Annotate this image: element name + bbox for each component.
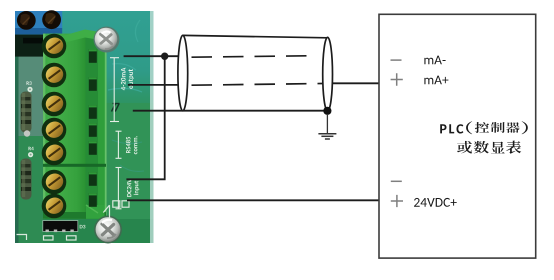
blue terminal block J2 xyxy=(15,10,62,34)
terminal plus 24VDC+ xyxy=(391,195,403,207)
wire W2 mA+ from terminal into cable xyxy=(128,84,187,86)
pcb ground mark xyxy=(112,104,120,112)
label 24VDC+ xyxy=(414,198,457,207)
silkscreen bracket group2 xyxy=(116,131,122,158)
junction node A xyxy=(161,53,168,60)
terminal minus mA- xyxy=(391,59,402,61)
PLC title line2 xyxy=(457,141,521,154)
green terminal block J1 xyxy=(43,30,107,219)
wire W1 mA- from 4-20mA output terminal xyxy=(124,55,187,57)
wire W5 mA+ cable to PLC xyxy=(332,82,379,84)
wire entry slots xyxy=(89,49,97,207)
relay shadow area xyxy=(15,35,43,57)
silkscreen marks xyxy=(17,201,130,240)
resistor R3 xyxy=(21,81,33,136)
PLC title line1 xyxy=(440,121,528,134)
pcb traces xyxy=(108,20,142,92)
label DC24V input xyxy=(127,179,131,197)
silkscreen bracket group3 xyxy=(116,168,122,209)
shielded cable shield (cylinder) xyxy=(178,35,333,111)
wire W4 24VDC+ from terminal to PLC xyxy=(127,199,379,201)
label mA- xyxy=(424,56,445,65)
IC D3 xyxy=(43,221,86,233)
wire W3 shield wire from terminal xyxy=(133,110,328,112)
label 4-20mA output xyxy=(121,68,126,91)
PLC box U1 xyxy=(379,14,536,258)
terminal plus mA+ xyxy=(391,73,403,85)
PCB photo background xyxy=(15,11,154,243)
mounting screw bottom-right xyxy=(94,216,122,244)
terminal screws xyxy=(42,34,67,219)
wire from node A down to DC24V input terminal xyxy=(126,56,164,179)
mounting screw top-right xyxy=(94,27,120,53)
silkscreen bracket group1 xyxy=(110,58,119,122)
junction node B shield to ground xyxy=(323,107,331,115)
cable inner conductor mA+ (dashed) xyxy=(192,84,323,86)
label RS485 comm xyxy=(126,137,131,153)
label mA+ xyxy=(424,76,448,85)
resistor R4 xyxy=(21,147,34,200)
terminal minus spare xyxy=(391,180,402,182)
cable inner conductor mA- (dashed) xyxy=(192,56,316,58)
ground symbol xyxy=(318,114,336,139)
